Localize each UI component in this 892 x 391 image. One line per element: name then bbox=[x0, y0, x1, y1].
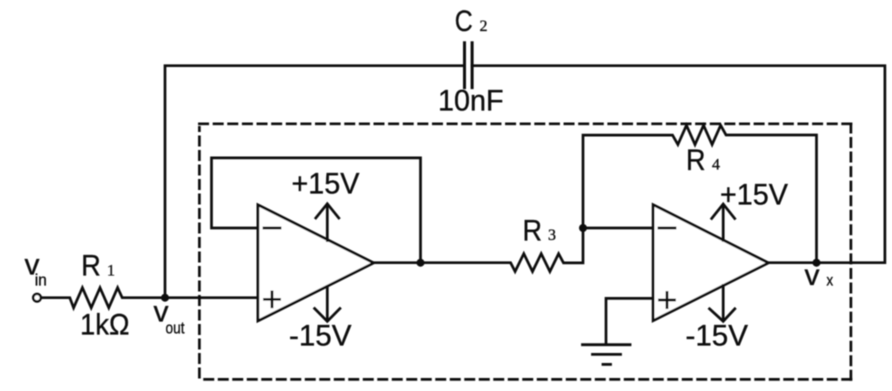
svg-text:+15V: +15V bbox=[720, 179, 788, 212]
svg-text:x: x bbox=[827, 273, 834, 290]
svg-text:1: 1 bbox=[107, 263, 115, 280]
svg-text:R: R bbox=[81, 250, 101, 283]
svg-text:-15V: -15V bbox=[289, 320, 352, 353]
svg-text:R: R bbox=[523, 215, 543, 248]
svg-text:in: in bbox=[35, 271, 47, 290]
svg-text:1kΩ: 1kΩ bbox=[80, 308, 130, 341]
svg-text:4: 4 bbox=[712, 157, 720, 174]
svg-text:out: out bbox=[166, 319, 185, 338]
svg-text:3: 3 bbox=[548, 227, 556, 244]
svg-text:2: 2 bbox=[480, 18, 488, 35]
svg-text:10nF: 10nF bbox=[438, 85, 504, 118]
svg-text:v: v bbox=[805, 259, 820, 292]
svg-text:C: C bbox=[455, 5, 473, 38]
svg-text:R: R bbox=[686, 144, 706, 177]
svg-text:+15V: +15V bbox=[292, 168, 360, 201]
svg-text:-15V: -15V bbox=[686, 320, 749, 353]
